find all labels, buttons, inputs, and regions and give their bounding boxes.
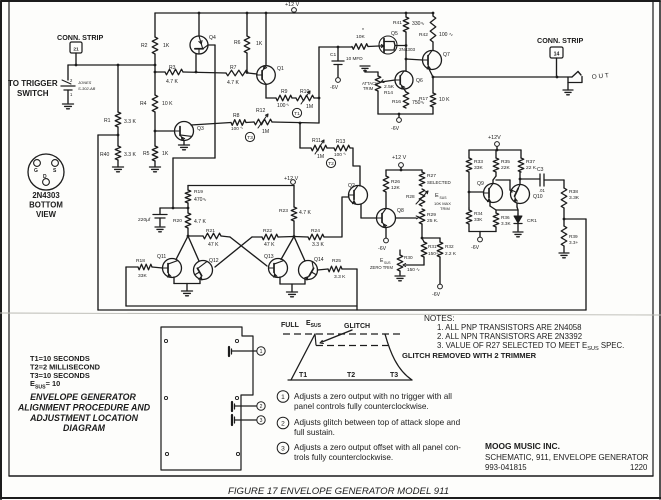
pcb outline [161,327,253,470]
svg-text:2. ALL NPN TRANSISTORS ARE: 2. ALL NPN TRANSISTORS ARE 2N3392 [437,332,582,341]
svg-text:Q13: Q13 [264,254,274,260]
callout 3 on pcb [257,416,265,424]
svg-text:1M: 1M [262,129,269,135]
waveform baseline [288,379,412,381]
wire R8-R12 [246,121,254,124]
svg-text:150 ∿: 150 ∿ [407,267,420,272]
wire trigger horizontal [68,64,155,67]
svg-text:3: 3 [260,418,263,424]
waveform decay curve [385,334,412,380]
wire Q3 to R8 [191,123,231,126]
svg-text:TRIM: TRIM [363,86,374,91]
ground R39 [559,253,569,258]
svg-text:1: 1 [70,92,73,97]
svg-text:R40: R40 [100,152,110,158]
trimmer pot 2 on pcb [232,402,256,411]
svg-text:R38: R38 [569,189,578,195]
wire Q11 Q12 emitters [174,277,200,291]
svg-text:R41: R41 [393,20,402,26]
wire bus to Q1 collector [265,13,267,66]
svg-text:Q2: Q2 [348,183,355,189]
pcb hole 6 [236,452,239,455]
transistor Q13 [264,254,288,278]
svg-text:1K: 1K [256,41,263,47]
waveform label T3 [390,372,398,379]
node +12V flipflop [284,176,299,184]
timing label T3 [245,132,254,141]
wire bus to R2 [154,13,156,37]
node -6V Q9 Q10 [471,237,482,251]
svg-text:Adjusts a zero output offset w: Adjusts a zero output offset with all pa… [294,443,461,452]
svg-text:Adjusts glitch between top of: Adjusts glitch between top of attack slo… [294,418,461,427]
svg-text:21: 21 [73,47,79,53]
svg-text:12K: 12K [391,185,400,191]
svg-text:R14: R14 [384,90,393,96]
svg-text:R11: R11 [312,138,321,144]
svg-text:TO TRIGGER: TO TRIGGER [8,79,58,88]
svg-text:SWITCH: SWITCH [17,89,49,98]
ground R5 [150,167,161,172]
svg-text:R3: R3 [169,65,176,71]
svg-text:R31: R31 [428,244,437,249]
svg-text:1: 1 [281,394,285,401]
svg-text:CR1: CR1 [527,218,537,224]
svg-text:R4: R4 [140,101,147,107]
svg-text:R24: R24 [311,228,320,234]
wire R11 drop [299,123,301,148]
svg-text:4.7 K: 4.7 K [166,79,178,85]
transistor Q5 FET [379,31,416,54]
wire R42 to Q7 [432,42,434,51]
svg-text:R42: R42 [419,32,428,38]
resistor R4 [140,95,173,112]
svg-text:R9: R9 [281,89,288,95]
resistor R8 [231,113,246,131]
svg-text:220μf: 220μf [138,217,151,223]
wire R20 node [187,228,190,237]
wire R2 to R4 [154,54,157,95]
capacitor C3 [537,167,545,193]
wire R22 to node [278,235,295,238]
svg-text:∿: ∿ [240,125,243,130]
svg-text:R20: R20 [173,218,182,224]
svg-text:3.3K: 3.3K [569,195,580,201]
wire R40 to ground [117,160,119,167]
trimmer R14 attack [362,76,395,96]
wire box14 down [556,58,558,77]
pcb hole 5 [165,452,168,455]
svg-text:full sustain.: full sustain. [294,428,335,437]
wire R23 bottom [293,221,295,237]
wire Q10 to C3 [520,178,540,180]
svg-text:GLITCH REMOVED WITH 2 TRIMME: GLITCH REMOVED WITH 2 TRIMMER [402,351,537,360]
svg-text:R22: R22 [263,228,272,234]
wire R32 to -6V [439,257,441,284]
wire R14 bottom [377,91,379,114]
svg-text:1M: 1M [317,154,324,160]
svg-text:Q1: Q1 [277,66,284,72]
svg-text:ALIGNMENT PROCEDURE AND: ALIGNMENT PROCEDURE AND [17,403,151,413]
svg-text:R21: R21 [206,228,215,234]
resistor R31 [421,238,440,257]
resistor R39 [561,226,578,246]
resistor R27 [419,170,451,186]
svg-text:R8: R8 [233,113,240,119]
text T1 spec [30,354,90,363]
resistor R25 [318,258,347,280]
wire emitters to -6V [468,208,470,210]
text Esus spec [30,379,60,391]
svg-text:993-041815: 993-041815 [485,463,527,472]
svg-text:R36: R36 [501,215,510,220]
wire col319 to R15 [319,46,352,49]
svg-text:Q9: Q9 [477,181,484,187]
wire Q3 base [155,130,175,132]
svg-text:3.3 K: 3.3 K [124,152,136,158]
svg-text:47 K: 47 K [264,242,275,248]
wire to R11 [300,147,311,149]
svg-text:R30: R30 [404,255,413,260]
wire R7 to Q1 [248,73,257,74]
svg-text:10 K: 10 K [439,97,450,103]
svg-text:ADJUSTMENT LOCATION: ADJUSTMENT LOCATION [29,413,138,423]
svg-text:100: 100 [334,152,342,157]
svg-text:R39: R39 [569,234,578,239]
svg-text:NOTES:: NOTES: [424,314,454,323]
svg-text:T2: T2 [347,372,355,379]
svg-text:SELECTED: SELECTED [427,180,452,185]
resistor R19 [185,186,207,204]
svg-text:Q8: Q8 [397,208,404,214]
svg-text:R13: R13 [336,139,346,145]
timing label T1 [292,108,301,117]
resistor R17 [419,77,450,114]
svg-text:∿: ∿ [286,102,289,107]
wire R22 diagonal to Q12 [215,237,252,267]
svg-text:22K: 22K [501,165,510,171]
svg-text:ENVELOPE GENERATOR: ENVELOPE GENERATOR [30,392,136,402]
svg-text:R27: R27 [427,173,436,179]
svg-text:DIAGRAM: DIAGRAM [63,423,106,433]
wire R38 junction [563,208,566,226]
wire +12 rail Q9 [469,149,521,152]
resistor R2 [141,37,170,54]
waveform attack ramp [291,334,315,380]
wire R3 row [155,71,248,74]
text 1220 [630,463,648,472]
resistor R20 [173,213,206,228]
svg-text:2: 2 [281,420,285,427]
svg-text:R10: R10 [300,89,310,95]
wire R6 to base row [246,53,248,72]
wire Q8 emitter arrow [396,216,420,219]
svg-text:T1: T1 [294,111,300,117]
waveform label Esus [306,320,322,329]
waveform top dashed [283,333,401,335]
svg-text:R23: R23 [279,208,288,214]
inner frame right [652,2,654,476]
svg-text:S-302-AB: S-302-AB [78,86,96,91]
wire bus to Q4 [198,13,200,36]
capacitor C2 220uF [138,208,167,226]
inner frame left [8,2,10,476]
svg-text:2: 2 [70,78,73,83]
adjust note 3 [277,442,461,462]
caption FIGURE 17 [228,486,449,497]
svg-text:R26: R26 [391,179,400,185]
node +12V top [285,2,300,13]
wire +12V line flipflop [188,185,294,187]
svg-text:1: 1 [260,349,263,355]
svg-text:R32: R32 [445,244,454,249]
svg-text:25 K.: 25 K. [427,218,438,224]
waveform label GLITCH [344,323,370,330]
svg-text:22 K.: 22 K. [526,165,537,171]
trimmer R30 Esus zero [370,250,420,272]
waveform glitch notch [315,334,316,345]
wire Q4 long vertical [214,45,216,158]
wire Q2 bottom to Q8 base [361,204,376,218]
svg-text:33K: 33K [138,273,147,279]
svg-text:JONES: JONES [77,80,92,85]
svg-text:47 K: 47 K [208,242,219,248]
note glitch removed [402,351,537,360]
resistor R23 [279,186,311,222]
resistor R22 [252,228,278,248]
ground R40 [113,167,124,172]
label CONN. STRIP (left) [57,33,104,42]
svg-text:C1: C1 [330,52,337,58]
wire R31 to R30 wiper [403,257,424,266]
resistor R21 [188,228,221,248]
wire top bus +12V [155,12,434,15]
svg-text:VIEW: VIEW [36,210,57,219]
transistor Q4 [190,35,216,54]
svg-text:CONN. STRIP: CONN. STRIP [57,33,104,42]
svg-text:R2: R2 [141,43,148,49]
wire bus to R6 [246,13,248,36]
resistor R5 [143,146,169,161]
resistor R33 [466,150,483,172]
wire Q9 collector cross [493,172,512,192]
svg-text:Q3: Q3 [197,126,204,132]
terminal box 14 [550,47,563,58]
svg-text:3.3 K: 3.3 K [124,119,136,125]
svg-text:R18: R18 [136,258,145,264]
svg-text:-6V: -6V [471,245,480,251]
trimmer R11 [311,138,327,160]
svg-text:330∿: 330∿ [412,21,425,27]
adjust note 1 [277,391,452,411]
wire Q11 base [152,267,163,268]
svg-text:SUS: SUS [440,196,448,200]
svg-text:ZERO TRIM: ZERO TRIM [370,265,393,270]
resistor R3 [165,65,183,85]
resistor R42 [419,13,453,42]
callout 1 on pcb [257,347,265,355]
wire R19-R20 [187,203,189,213]
wire R4 to R5 [154,112,157,146]
svg-text:.01: .01 [539,188,545,193]
wire OUT line [432,76,570,79]
svg-text:3.3+: 3.3+ [569,240,579,245]
transistor Q1 [257,66,284,85]
wire Q4 node to cap node [173,158,215,208]
wire trigger to R1 [117,65,119,112]
wire R9-R10 [292,97,296,99]
note 1 [437,323,581,332]
svg-text:panel controls fully countercl: panel controls fully counterclockwise. [294,402,429,411]
wire Q5 to col406 [395,45,406,47]
ground OUT jack [563,90,573,95]
node +12V Q9 [488,135,501,150]
wire Q7 base [406,59,423,60]
svg-text:470∿: 470∿ [194,197,207,203]
svg-text:R33: R33 [474,159,483,165]
wire col406 [405,32,408,71]
ground Q3 [179,141,190,150]
svg-text:33K: 33K [474,217,483,222]
waveform label T2 [347,372,355,379]
wire R11-R13 [327,147,334,149]
wire Q1 emitter [266,84,276,98]
wire bottom rail [98,309,586,311]
wire R29 down [421,224,424,239]
svg-text:FIGURE 17 ENVELOPE GENERATOR: FIGURE 17 ENVELOPE GENERATOR MODEL 911 [228,486,449,497]
node -6V below C1 [330,78,340,91]
svg-text:GLITCH: GLITCH [344,323,370,330]
svg-text:Q10: Q10 [533,194,543,200]
svg-text:3.3 K: 3.3 K [312,242,324,248]
svg-text:-6V: -6V [391,126,400,132]
wire Q13 Q14 collectors [281,237,305,262]
resistor R15 10K [352,28,368,49]
svg-text:+12V: +12V [488,135,501,141]
text envelope generator title [17,392,151,433]
resistor R9 [276,89,292,109]
svg-text:100: 100 [231,126,239,131]
adjust note 2 [277,417,460,437]
ground R30 [395,271,405,281]
text T2 spec [30,363,101,372]
svg-text:+12 V: +12 V [285,2,300,8]
svg-text:3: 3 [281,445,285,452]
node -6V Q8 [378,238,388,252]
note 2 [437,332,582,341]
label CONN. STRIP (right) [537,36,584,45]
svg-text:-6V: -6V [330,85,339,91]
svg-text:∿: ∿ [343,151,346,156]
ground CR1 [513,232,523,237]
svg-text:R37: R37 [526,159,535,165]
waveform label T1 [299,372,307,379]
wire R25 to rail [342,269,357,310]
svg-text:Q12: Q12 [209,258,219,264]
ground C2 [155,227,165,232]
svg-text:OUT: OUT [591,72,611,81]
svg-text:R16: R16 [392,99,401,105]
wire C3 to R38 [544,179,564,181]
capacitor C1 [330,47,363,77]
svg-text:1K: 1K [162,151,169,157]
svg-text:Q4: Q4 [209,35,216,41]
svg-text:+12 V: +12 V [392,155,407,161]
wire Q4 collector right [208,44,215,46]
text T3 spec [30,371,90,380]
svg-text:D: D [43,174,47,180]
label JONES S-302-AB [77,80,96,91]
transistor Q12 [194,258,219,280]
resistor R35 [493,150,510,172]
svg-text:-6V: -6V [432,292,441,298]
wire conn strip to trigger line [75,53,77,65]
pcb hole 1 [164,339,167,342]
svg-text:2N4303: 2N4303 [32,191,60,200]
wire node A to flipflop [98,134,118,136]
pcb hole 4 [235,396,238,399]
svg-text:-6V: -6V [378,246,387,252]
svg-text:10 MFD: 10 MFD [346,56,363,61]
svg-text:TRIM: TRIM [440,206,450,211]
wire Q6 collector [404,70,406,72]
svg-text:1M: 1M [306,104,313,110]
scan crease [0,313,661,315]
label 2N4303 BOTTOM VIEW [29,191,63,219]
wire R34 R36 bottoms [469,224,496,237]
ground trigger jack [63,104,74,109]
wire Q8 to -6V [385,228,387,239]
wire R39 to ground [563,246,565,252]
wire R10 to col [314,97,319,99]
ground Q13 Q14 [287,292,298,297]
svg-text:G: G [34,168,38,174]
svg-text:*: * [362,28,364,34]
svg-text:R1: R1 [104,118,111,124]
svg-text:4.7 K: 4.7 K [227,80,239,86]
notes heading [424,314,454,323]
svg-text:ESUS= 10: ESUS= 10 [30,379,60,391]
wire R18 drop [125,267,127,306]
svg-text:T3: T3 [390,372,398,379]
svg-text:1K: 1K [163,43,170,49]
pcb hole 3 [164,396,167,399]
wire R1 to R40 [117,127,120,146]
svg-text:10 K: 10 K [162,101,173,107]
svg-text:2.2 K: 2.2 K [445,251,457,256]
terminal box 21 [70,42,82,53]
svg-text:R25: R25 [332,258,341,264]
svg-text:R29: R29 [427,212,436,218]
svg-text:MOOG MUSIC INC.: MOOG MUSIC INC. [485,441,560,451]
callout 2 on pcb [257,402,265,410]
resistor R29 [419,209,438,224]
svg-text:100: 100 [277,103,286,109]
resistor R13 [334,139,350,157]
resistor R34 [466,210,483,224]
waveform label FULL [281,322,300,329]
resistor R40 [100,146,136,160]
svg-text:trols fully counterclockwise.: trols fully counterclockwise. [294,453,393,462]
svg-text:T2: T2 [328,161,334,167]
transistor Q14 [299,257,324,280]
diode CR1 [514,214,537,231]
resistor R16 [392,89,425,108]
svg-text:C3: C3 [537,167,544,173]
wire cap node horizontal [160,207,189,210]
transistor Q11 [157,254,182,278]
svg-text:3.3 K: 3.3 K [334,274,346,280]
transistor Q6 [395,71,423,89]
